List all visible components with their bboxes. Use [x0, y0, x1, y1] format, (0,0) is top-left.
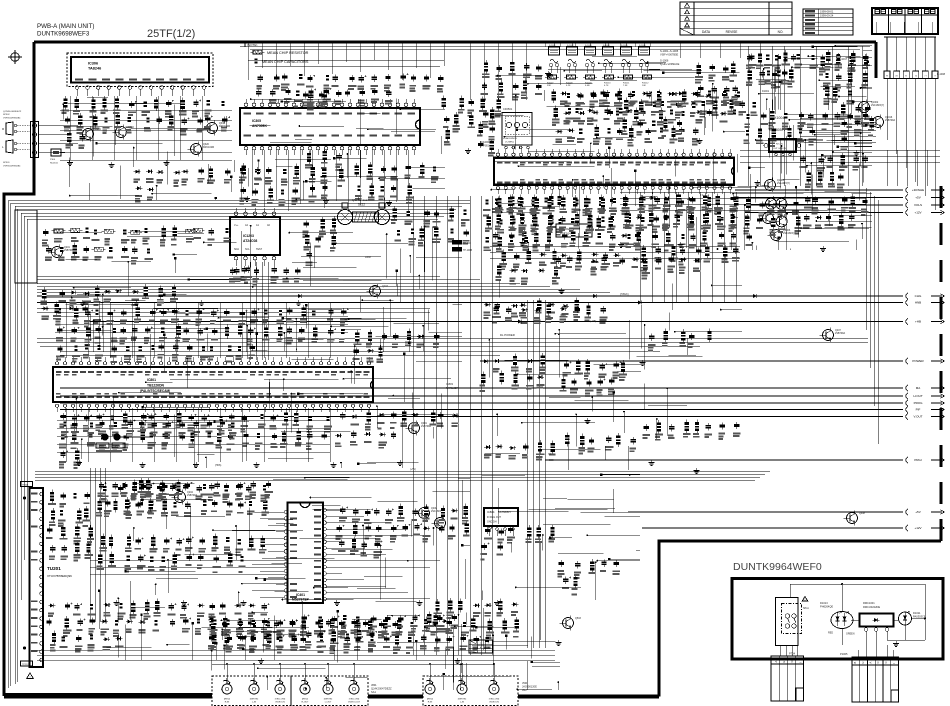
svg-text:E: E [782, 661, 786, 663]
svg-text:+5V: +5V [915, 196, 920, 200]
svg-text:25TF(1/2): 25TF(1/2) [147, 28, 195, 40]
audio processor IC308 AN7394K [240, 99, 420, 213]
svg-text:+5V: +5V [915, 510, 920, 514]
svg-text:R1007: R1007 [547, 83, 554, 85]
bottom border joint [658, 695, 661, 697]
transistor Q302 [113, 125, 135, 140]
delay line QCNW-0101 5E22 [338, 198, 390, 225]
date table [803, 9, 853, 35]
svg-text:H.OUT: H.OUT [913, 394, 923, 398]
resistor/capacitor group at 118,476 [121, 478, 182, 519]
svg-text:MEAN CHIP RESISTOR: MEAN CHIP RESISTOR [267, 51, 309, 55]
svg-text:TP201: TP201 [22, 484, 29, 486]
svg-text:P304: P304 [50, 159, 56, 161]
transistor Q407 2SB709A [820, 328, 846, 343]
AV select mini table [469, 640, 493, 653]
svg-text:DUNTK9964WEF0: DUNTK9964WEF0 [733, 561, 822, 573]
transistor Q503 [560, 616, 582, 631]
resistor/capacitor group at 818,52 [819, 53, 868, 105]
svg-text:2SC1815(Y): 2SC1815(Y) [871, 104, 884, 107]
net +5V wire and off-page arrow [628, 509, 945, 515]
resistor/capacitor group at 300,216 [302, 216, 337, 266]
svg-text:TA8246: TA8246 [88, 67, 101, 71]
svg-text:R-IN: R-IN [428, 702, 433, 704]
svg-text:SCL: SCL [245, 248, 250, 251]
resistor/capacitor group at 300,610 [300, 612, 459, 650]
svg-text:6.2K: 6.2K [566, 85, 571, 87]
sub-board wiring [790, 583, 926, 647]
regulator IC804 KA78R05PI [484, 508, 518, 536]
resistor/capacitor group at 560,86 [560, 89, 742, 125]
svg-text:(WHITE): (WHITE) [458, 699, 467, 701]
transistor Q401 2SB709A [406, 421, 432, 436]
transistor Q1006 2SC1815(Y) [768, 228, 797, 243]
resistor/capacitor group at 495,248 [495, 249, 621, 285]
resistor/capacitor group at 648,328 [648, 329, 712, 352]
svg-text:(YELLOW): (YELLOW) [349, 699, 360, 701]
svg-text:PH6264QE: PH6264QE [820, 605, 833, 609]
svg-text:Q203: Q203 [382, 285, 389, 288]
sub-board outline [732, 579, 943, 660]
net +12V wire and off-page arrow [642, 525, 945, 531]
svg-text:NO.: NO. [778, 30, 784, 34]
svg-text:P704: P704 [789, 652, 796, 656]
svg-text:REVISE: REVISE [726, 30, 738, 34]
audio jacks SP301 SP302 [2, 111, 78, 167]
regulator IX1004 KA7805PI [764, 116, 801, 156]
svg-text:OUT GND IN: OUT GND IN [773, 148, 786, 150]
svg-text:A: A [869, 662, 873, 664]
resistor/capacitor group at 55,408 [59, 410, 332, 469]
resistor/capacitor group at 745,48 [748, 54, 797, 88]
svg-text:VSP0510RS50B4: VSP0510RS50B4 [3, 117, 21, 119]
svg-text:SP302: SP302 [3, 114, 10, 116]
SAW filters S1001-S1006 [545, 42, 680, 87]
svg-text:V.OUT: V.OUT [914, 415, 923, 419]
AV switch IC401 M52797SP [252, 503, 430, 604]
resistor/capacitor group at 478,523 [480, 525, 555, 561]
resistor/capacitor group at 55,303 [56, 305, 349, 346]
resistor/capacitor group at 100,480 [101, 483, 269, 517]
svg-text:(RED): (RED) [427, 699, 433, 701]
svg-text:IC801: IC801 [147, 378, 156, 382]
interconnect wiring [41, 45, 872, 690]
svg-text:IC1203: IC1203 [243, 234, 254, 238]
net PROG wire and off-page arrow [60, 400, 945, 406]
svg-text:N: N [884, 662, 888, 664]
jack feed rail [212, 663, 495, 678]
svg-text:PWB-A (MAIN UNIT): PWB-A (MAIN UNIT) [37, 23, 94, 30]
tuner TU201 [21, 482, 73, 679]
svg-text:CF0501: CF0501 [503, 107, 513, 111]
svg-text:JA0300120E: JA0300120E [522, 685, 537, 689]
resistor/capacitor group at 208,616 [209, 616, 519, 654]
svg-text:IC306: IC306 [88, 62, 98, 66]
svg-text:QCNW-0009DEZZ: QCNW-0009DEZZ [3, 111, 22, 113]
svg-text:P1005: P1005 [840, 652, 848, 656]
resistor/capacitor group at 742,48 [746, 50, 870, 89]
inline diodes on supply rails [297, 294, 759, 324]
svg-text:IC305: IC305 [252, 119, 261, 123]
svg-text:SDA: SDA [234, 248, 239, 251]
svg-text:1999-09-24: 1999-09-24 [820, 14, 834, 18]
registration mark [8, 50, 22, 64]
resistor/capacitor group at 838,100 [840, 102, 875, 150]
transistor Q1002 2SC1815(Y) [856, 100, 885, 115]
net VOLS wire and off-page arrow [745, 202, 945, 208]
svg-text:7.5K: 7.5K [623, 85, 628, 87]
svg-text:L-IN: L-IN [460, 702, 465, 704]
svg-text:IC401: IC401 [296, 593, 305, 597]
resistor/capacitor group at 350,328 [353, 328, 440, 363]
svg-text:4.7K: 4.7K [604, 85, 609, 87]
svg-text:HNB: HNB [915, 301, 921, 305]
resistor/capacitor group at 60,95 [62, 96, 230, 149]
svg-text:L-IN: L-IN [252, 702, 257, 704]
resistor/capacitor group at 57,412 [61, 419, 237, 439]
net H.OUT wire and off-page arrow [60, 393, 945, 399]
svg-text:VSP0510RS50B4: VSP0510RS50B4 [3, 165, 21, 167]
resistor/capacitor group at 390,203 [391, 206, 470, 247]
net PRGI wire and off-page arrow [545, 457, 945, 463]
svg-text:N: N [790, 661, 794, 663]
resistor/capacitor group at 560,430 [565, 432, 636, 454]
svg-text:PRGI: PRGI [914, 458, 922, 462]
svg-text:(7.2MHz): (7.2MHz) [505, 142, 514, 144]
resistor/capacitor group at 208,616 [208, 619, 400, 653]
net +5V wire and off-page arrow [735, 195, 945, 201]
net MA wire and off-page arrow [60, 385, 945, 391]
resistor/capacitor group at 335,406 [335, 409, 459, 449]
resistor/capacitor group at 228,258 [229, 266, 300, 286]
svg-text:TP212: TP212 [22, 664, 29, 666]
svg-text:(RED): (RED) [302, 699, 308, 701]
svg-text:CHG: CHG [915, 294, 922, 298]
svg-text:10K: 10K [642, 85, 646, 87]
transistor Q408 [844, 511, 866, 526]
svg-text:RED: RED [828, 632, 833, 635]
ground symbols [67, 72, 860, 664]
svg-text:R1012: R1012 [642, 83, 649, 85]
svg-text:VIDEO-IN: VIDEO-IN [489, 702, 499, 704]
transistor Q406 2SC1815(S) [416, 506, 445, 521]
resistor/capacitor group at 556,556 [558, 559, 621, 596]
svg-text:2SB709A: 2SB709A [421, 425, 432, 428]
resistor/capacitor group at 550,250 [554, 255, 700, 275]
svg-text:TEST: TEST [256, 248, 263, 251]
svg-text:TB1226DN: TB1226DN [147, 384, 165, 388]
svg-text:RMCU0222DE: RMCU0222DE [863, 605, 880, 609]
resistor/capacitor group at 255,70 [256, 73, 443, 107]
svg-text:SP301: SP301 [3, 162, 10, 164]
timer LED D1011 [899, 611, 926, 625]
svg-text:D1011: D1011 [913, 611, 921, 615]
transistor Q409 [432, 516, 446, 531]
svg-text:VTUV7B78EDQ96: VTUV7B78EDQ96 [47, 574, 72, 578]
resistor/capacitor group at 305,148 [305, 148, 345, 202]
connector P-1008 [884, 37, 946, 210]
transistor Q201 2SB709A [49, 245, 75, 260]
resistor/capacitor group at 800,150 [799, 153, 868, 191]
svg-text:R1010: R1010 [604, 83, 611, 85]
svg-text:+30/NHE: +30/NHE [912, 188, 924, 192]
resistor/capacitor group at 620,190 [621, 192, 738, 247]
net CHG wire and off-page arrow [37, 293, 945, 299]
svg-text:RMC1001: RMC1001 [863, 601, 875, 605]
svg-text:VSIF+V007B5E: VSIF+V007B5E [660, 53, 679, 57]
svg-text:SPs1: SPs1 [803, 607, 809, 610]
svg-text:IX1004: IX1004 [773, 116, 784, 120]
sub-board title [733, 561, 822, 573]
bus wires extra [55, 96, 866, 462]
resistor/capacitor group at 640,418 [643, 420, 741, 441]
misc text labels [215, 58, 848, 471]
svg-text:N: N [876, 662, 880, 664]
revision table [680, 2, 792, 35]
svg-text:V++: V++ [234, 224, 239, 227]
svg-text:R-OUT: R-OUT [302, 702, 310, 704]
resistor/capacitor group at 236,160 [239, 163, 300, 206]
resistor/capacitor group at 480,192 [483, 195, 617, 253]
jungle IC801 TB1226DN [53, 357, 373, 412]
resistor/capacitor group at 800,192 [803, 194, 869, 231]
svg-text:L-OUT: L-OUT [325, 702, 332, 704]
sub-board connector leads [780, 645, 893, 657]
reset IC1002 PST9142 [556, 224, 592, 237]
net +12V wire and off-page arrow [745, 210, 945, 216]
resistor/capacitor group at 695,58 [695, 61, 738, 104]
resistor/capacitor group at 558,358 [560, 359, 627, 397]
net +HB wire and off-page arrow [90, 319, 945, 325]
resistor/capacitor group at 440,95 [442, 95, 476, 145]
resistor/capacitor group at 478,105 [477, 107, 495, 157]
transistor Q203 [367, 284, 389, 299]
transistor Q320 KRC102M [188, 142, 215, 157]
svg-text:PA0303CE: PA0303CE [913, 615, 926, 619]
svg-text:2SC1815(Y): 2SC1815(Y) [783, 232, 796, 235]
svg-text:+12V: +12V [914, 526, 921, 530]
svg-text:Q408: Q408 [859, 512, 866, 515]
svg-text:VOLS: VOLS [914, 203, 922, 207]
svg-text:+12V: +12V [914, 211, 921, 215]
net POWER wire and off-page arrow [480, 358, 945, 364]
svg-text:(YELLOW): (YELLOW) [489, 699, 500, 701]
svg-text:J801: J801 [371, 683, 377, 687]
resistor/capacitor group at 335,503 [335, 504, 469, 559]
svg-text:KRC102M: KRC102M [203, 146, 214, 149]
svg-text:(WHITE): (WHITE) [250, 699, 259, 701]
svg-text:R1011: R1011 [623, 83, 630, 85]
resistor/capacitor group at 45,598 [46, 599, 270, 653]
resistor/capacitor group at 478,58 [479, 60, 542, 118]
svg-text:D1013: D1013 [820, 601, 828, 605]
AV jack block J801 [212, 676, 392, 706]
resistor/capacitor group at 742,108 [744, 109, 869, 147]
connector P1005 [840, 652, 899, 702]
svg-text:2SB709A: 2SB709A [835, 332, 846, 335]
resistor/capacitor group at 350,158 [355, 162, 439, 204]
svg-text:AV2: AV2 [522, 688, 527, 692]
transistor Q1009 [760, 211, 783, 226]
transistor Q330 KRC102M [204, 121, 231, 136]
svg-text:1999-08-01: 1999-08-01 [820, 9, 834, 13]
svg-text:(WHITE): (WHITE) [324, 699, 333, 701]
svg-text:FILADDNNCE: FILADDNNCE [503, 137, 518, 140]
AV jack block J501 [423, 676, 537, 706]
svg-text:DATA: DATA [702, 30, 711, 34]
svg-text:A: A [774, 661, 778, 663]
chip parts legend [245, 41, 309, 64]
svg-text:R1008: R1008 [566, 83, 573, 85]
svg-text:MEAN CHIP CAPACITORS: MEAN CHIP CAPACITORS [262, 60, 309, 64]
svg-text:POWER: POWER [912, 359, 924, 363]
svg-text:IC804: IC804 [487, 510, 495, 514]
sheet number text [147, 28, 195, 40]
svg-text:2SA1015(Y): 2SA1015(Y) [777, 182, 790, 185]
svg-text:NC4611: NC4611 [50, 162, 59, 164]
test points FP801 FP802 [96, 433, 125, 452]
svg-text:PIF: PIF [916, 408, 921, 412]
svg-text:6.4B: 6.4B [585, 85, 590, 87]
resistor/capacitor group at 95,532 [97, 534, 267, 574]
svg-text:VIDEO-OUT: VIDEO-OUT [348, 702, 361, 704]
eeprom IC1203 AT24C08 [230, 208, 280, 266]
svg-text:R-IN: R-IN [225, 702, 230, 704]
audio amp IC306 TA8246 [67, 53, 213, 96]
resistor/capacitor group at 428,598 [434, 598, 519, 632]
svg-text:SA1: SA1 [371, 690, 376, 694]
resistor/capacitor group at 490,300 [493, 302, 608, 324]
resistor/capacitor group at 480,298 [484, 298, 580, 319]
svg-text:(RED): (RED) [224, 699, 230, 701]
resistor/capacitor group at 300,85 [302, 91, 329, 110]
resistor/capacitor group at 490,192 [492, 193, 738, 251]
svg-text:DUNTK9698WEF3: DUNTK9698WEF3 [37, 31, 90, 38]
main switch SPs1 [776, 597, 810, 646]
svg-text:MA: MA [916, 386, 921, 390]
resistor/capacitor group at 130,163 [133, 166, 231, 202]
filter CF0501 [502, 107, 532, 149]
resistor/capacitor group at 45,488 [46, 490, 94, 562]
resistor/capacitor group at 640,243 [640, 244, 739, 279]
svg-text:Q503: Q503 [575, 617, 582, 620]
svg-text:P-1008: P-1008 [937, 73, 946, 76]
svg-text:(NOTE): (NOTE) [247, 43, 257, 47]
resistor/capacitor group at 88,280 [93, 284, 178, 306]
net +30/NHE wire and off-page arrow [735, 187, 945, 193]
resistor/capacitor group at 620,95 [621, 97, 757, 137]
connector P704 [771, 652, 804, 702]
resistor/capacitor group at 95,476 [96, 478, 273, 519]
svg-text:33K: 33K [547, 85, 551, 87]
transistor Q204 2SB709A [172, 490, 198, 505]
net PIF wire and off-page arrow [60, 407, 945, 413]
board title text [37, 23, 94, 38]
svg-text:VIDEO-IN: VIDEO-IN [275, 702, 285, 704]
svg-text:PROG: PROG [914, 401, 924, 405]
svg-text:U: U [861, 662, 865, 664]
resistor/capacitor group at 40,222 [42, 225, 230, 264]
svg-text:R1009: R1009 [585, 83, 592, 85]
svg-text:R/C IN: R/C IN [776, 144, 783, 146]
svg-text:S-1006: S-1006 [660, 59, 669, 63]
resistor/capacitor group at 480,440 [484, 440, 555, 461]
IF/video IC1001 [480, 140, 734, 194]
transistor Q1016 2SB709A [870, 115, 896, 130]
svg-text:QJAKJ0047DEZZ: QJAKJ0047DEZZ [371, 687, 392, 691]
net V.OUT wire and off-page arrow [60, 414, 945, 420]
resistor/capacitor group at 478,352 [479, 353, 545, 392]
power LED D1013 [820, 601, 855, 636]
resistor/capacitor group at 55,336 [56, 343, 255, 363]
transistor Q301 [80, 127, 102, 142]
svg-text:B: B [853, 662, 857, 664]
svg-text:2SB709A: 2SB709A [885, 119, 896, 122]
net HNB wire and off-page arrow [37, 300, 945, 306]
svg-text:(YELLOW): (YELLOW) [275, 699, 286, 701]
approval table [872, 8, 938, 34]
remote sensor RMC1001 [860, 601, 894, 645]
resistor/capacitor group at 38,285 [40, 287, 91, 320]
transistor Q1005 2SA1015(Y) [762, 178, 791, 193]
svg-text:(PAL/NTSC/SECAM): (PAL/NTSC/SECAM) [140, 389, 170, 393]
svg-text:+HB: +HB [915, 320, 921, 324]
svg-text:GREEN: GREEN [846, 633, 855, 636]
resistor/capacitor group at 742,196 [743, 196, 802, 246]
resistor/capacitor group at 550,86 [552, 89, 742, 147]
svg-text:TU201: TU201 [47, 566, 61, 571]
svg-text:IN REG OUT: IN REG OUT [487, 516, 501, 519]
svg-text:AT24C08: AT24C08 [243, 239, 257, 243]
